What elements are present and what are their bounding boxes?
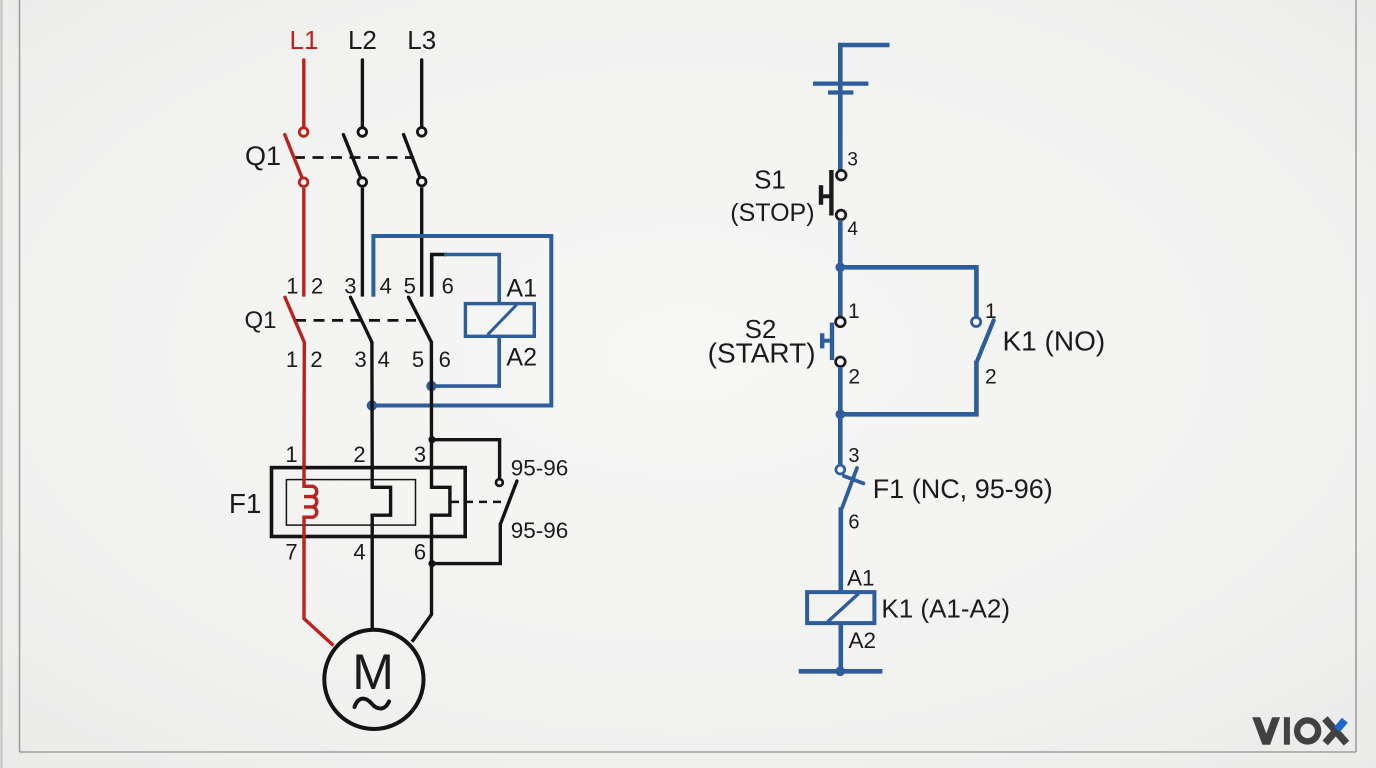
contactor pole 1-2 contact: [285, 297, 304, 342]
svg-text:A2: A2: [849, 628, 877, 653]
wire 96 return: [432, 523, 500, 564]
wire pole 6 conductor: [430, 342, 434, 468]
svg-text:3: 3: [344, 273, 356, 298]
overload F1 inner box: [286, 480, 415, 525]
overload terminal numbers top 1 2 3: [285, 442, 426, 467]
breaker Q1 pole L3: [404, 128, 426, 297]
wire L1 drop: [302, 60, 305, 126]
wire S1 to node: [838, 220, 843, 268]
svg-text:3: 3: [847, 150, 858, 171]
aux contact 95-96 blade: [501, 481, 517, 523]
breaker Q1 pole L2: [343, 128, 366, 297]
contact K1 NO aux: [972, 317, 994, 361]
wire S2 to node B: [838, 367, 843, 414]
overload terminal numbers bottom 7 4 6: [285, 540, 426, 565]
svg-text:1: 1: [285, 442, 297, 467]
svg-text:3: 3: [414, 442, 426, 467]
svg-text:6: 6: [848, 511, 859, 533]
wire coil A2 lead: [431, 336, 499, 386]
svg-text:4: 4: [353, 540, 365, 565]
node junction dot 96 return: [428, 560, 435, 567]
svg-text:A1: A1: [506, 275, 537, 303]
wire bottom rail: [799, 669, 883, 674]
wire black loop pole5 top to coil A1: [432, 255, 447, 297]
pushbutton S1 NC contact: [819, 170, 846, 220]
svg-text:95-96: 95-96: [511, 455, 569, 480]
wire F1 to coil: [838, 507, 843, 592]
aux contact 95-96 terminal circle: [496, 479, 503, 486]
overload F1 outer box: [272, 468, 466, 537]
wire L2 drop: [361, 60, 364, 126]
wire pole 2 conductor to overload: [302, 342, 306, 468]
node junction dot pole3 conductor: [426, 381, 436, 391]
svg-text:1: 1: [286, 347, 298, 372]
svg-text:L2: L2: [348, 25, 377, 55]
svg-text:4: 4: [378, 347, 390, 372]
motor AC tilde: [355, 699, 390, 709]
svg-text:6: 6: [442, 273, 454, 298]
svg-text:1: 1: [286, 273, 298, 298]
contactor pole 5-6 contact: [409, 297, 432, 342]
contactor top terminal numbers 1 2 3 4 5 6: [286, 273, 454, 298]
overload heater pole 1 (red): [304, 466, 334, 646]
svg-text:K1 (A1-A2): K1 (A1-A2): [881, 594, 1010, 624]
wire coil A1 lead: [444, 255, 499, 304]
svg-text:3: 3: [354, 347, 366, 372]
svg-text:(START): (START): [708, 338, 816, 369]
svg-text:A2: A2: [506, 343, 537, 371]
contactor bottom terminal numbers 1 2 3 4 5 6: [286, 347, 451, 372]
svg-text:2: 2: [848, 366, 860, 389]
node junction A: [835, 263, 845, 273]
svg-text:4: 4: [847, 219, 858, 240]
wire node B to F1 contact: [838, 414, 843, 464]
svg-text:5: 5: [404, 273, 416, 298]
overload heater pole 2 detour: [372, 466, 390, 630]
svg-text:S1: S1: [754, 164, 786, 194]
coil K1 (power side) box: [465, 304, 534, 337]
overload heater pole 3 detour: [412, 466, 450, 642]
contact F1 NC (control): [836, 465, 864, 507]
svg-text:2: 2: [310, 347, 322, 372]
contactor pole 3-4 contact: [351, 297, 372, 342]
svg-text:5: 5: [412, 347, 424, 372]
svg-text:(STOP): (STOP): [730, 199, 814, 227]
wire L3 drop: [420, 60, 423, 126]
svg-text:6: 6: [414, 540, 426, 565]
wire pole 4 conductor: [370, 342, 374, 468]
svg-text:2: 2: [353, 442, 365, 467]
node junction B: [836, 410, 846, 420]
svg-text:7: 7: [285, 540, 297, 565]
breaker Q1 dashed linkage: [294, 156, 414, 159]
svg-text:2: 2: [311, 273, 323, 298]
wire to 95-96 aux contact: [432, 440, 500, 478]
svg-text:Q1: Q1: [245, 141, 281, 171]
motor M1 circle: [324, 630, 423, 729]
svg-text:3: 3: [848, 445, 859, 467]
pushbutton S2 NO contact: [820, 317, 845, 367]
svg-text:4: 4: [380, 273, 392, 298]
node junction dot 95 tap: [428, 436, 435, 443]
contactor dashed linkage: [295, 319, 416, 322]
svg-text:F1 (NC, 95-96): F1 (NC, 95-96): [873, 474, 1053, 504]
overload trip dashed link: [451, 501, 506, 504]
wire blue tap to pole 3 top: [372, 236, 551, 406]
wire node A to K1 branch: [840, 267, 976, 316]
breaker Q1 pole L1: [285, 128, 308, 297]
control supply symbol: [813, 45, 890, 170]
svg-text:A1: A1: [847, 565, 875, 590]
svg-text:2: 2: [985, 366, 997, 389]
node junction dot pole2 bottom: [367, 400, 377, 410]
svg-text:M: M: [352, 644, 394, 700]
VIOX logo: [1252, 717, 1346, 745]
svg-text:1: 1: [985, 300, 997, 323]
svg-text:F1: F1: [229, 488, 262, 519]
svg-text:Q1: Q1: [244, 307, 276, 334]
svg-text:1: 1: [848, 300, 860, 323]
svg-text:95-96: 95-96: [511, 518, 569, 543]
svg-text:L1: L1: [290, 25, 319, 55]
coil K1 (control): [807, 592, 874, 623]
svg-text:K1 (NO): K1 (NO): [1003, 326, 1106, 357]
svg-text:L3: L3: [407, 25, 436, 55]
wire K1 branch bottom: [840, 361, 976, 415]
wire coil to bottom rail: [838, 623, 843, 671]
svg-text:6: 6: [439, 347, 451, 372]
node junction bottom rail: [835, 667, 845, 677]
wire node A down to S2: [838, 267, 843, 316]
